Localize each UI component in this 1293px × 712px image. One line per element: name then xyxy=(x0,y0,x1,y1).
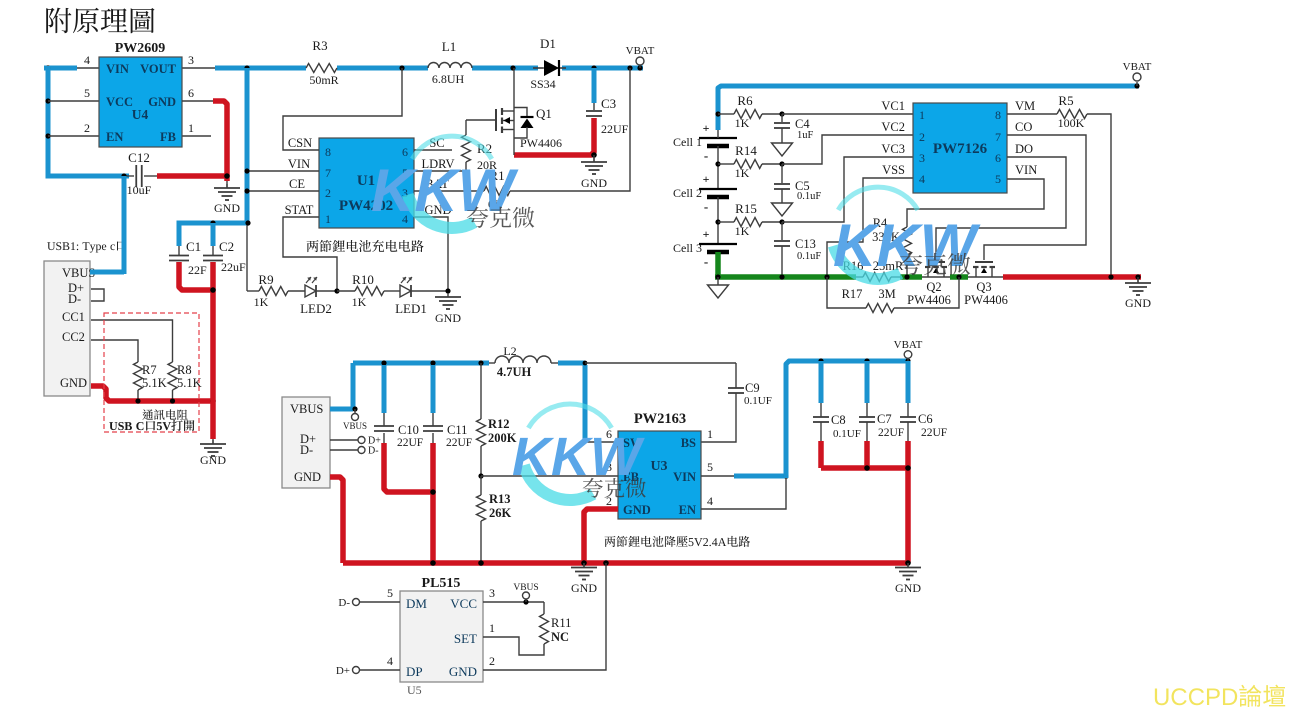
capacitor C12 xyxy=(124,175,134,177)
capacitor C7 22UF xyxy=(865,361,870,403)
svg-text:U4: U4 xyxy=(132,107,149,122)
svg-text:C4: C4 xyxy=(795,117,810,131)
svg-text:L1: L1 xyxy=(442,39,456,54)
resistor R11 NC xyxy=(543,602,545,614)
wire GND2 to rail (red) xyxy=(330,477,343,563)
svg-text:-: - xyxy=(704,199,708,214)
svg-text:5: 5 xyxy=(707,460,713,474)
svg-text:6: 6 xyxy=(188,86,194,100)
wire VBAT2 rail (blue) xyxy=(718,86,1139,130)
wire C3 blue stub xyxy=(592,68,597,103)
diode D1 SS34 xyxy=(533,67,544,69)
svg-text:KKW: KKW xyxy=(512,427,645,487)
svg-text:CC2: CC2 xyxy=(62,330,85,344)
svg-text:VCC: VCC xyxy=(106,95,133,109)
svg-text:PW4406: PW4406 xyxy=(520,136,562,150)
svg-text:R12: R12 xyxy=(488,417,510,431)
capacitor C1 22F xyxy=(177,223,182,246)
node green left xyxy=(715,274,720,279)
node C1/C2 red xyxy=(210,287,216,293)
svg-text:-: - xyxy=(704,148,708,163)
svg-text:Q3: Q3 xyxy=(976,280,991,294)
wire VC1 xyxy=(782,113,913,115)
svg-text:D-: D- xyxy=(368,446,379,457)
svg-text:+: + xyxy=(703,172,710,186)
ground GND LED row xyxy=(447,293,449,297)
svg-text:D-: D- xyxy=(68,292,81,306)
resistor R3 xyxy=(306,64,337,73)
svg-text:D-: D- xyxy=(338,597,350,609)
svg-text:VBUS: VBUS xyxy=(343,421,367,431)
svg-text:7: 7 xyxy=(995,130,1001,144)
svg-text:1uF: 1uF xyxy=(797,130,814,141)
resistor R1 0R xyxy=(414,190,484,192)
svg-text:C6: C6 xyxy=(918,412,933,426)
watermark UCCPD论坛 xyxy=(1155,685,1285,707)
svg-text:DP: DP xyxy=(406,664,423,679)
node R4 foot xyxy=(904,274,909,279)
capacitor C3 xyxy=(593,103,595,110)
terminal VBAT3 xyxy=(907,358,909,361)
svg-text:VBUS: VBUS xyxy=(513,583,538,593)
terminal VBUS3 xyxy=(523,599,528,604)
terminal VBAT xyxy=(637,65,642,70)
svg-text:CO: CO xyxy=(1015,120,1032,134)
wire green rail 2 xyxy=(900,274,922,280)
transistor Q2 PW4406 xyxy=(927,261,945,263)
capacitor C4 1uF xyxy=(781,114,783,122)
svg-text:26K: 26K xyxy=(489,506,512,520)
resistor R5 100K xyxy=(1007,113,1057,115)
svg-text:PL515: PL515 xyxy=(422,576,461,591)
svg-text:C7: C7 xyxy=(877,412,892,426)
capacitor C6 22UF xyxy=(906,361,911,403)
wire STAT route xyxy=(283,217,337,291)
svg-text:50mR: 50mR xyxy=(309,73,338,87)
svg-text:NC: NC xyxy=(551,630,569,644)
svg-text:Cell 3: Cell 3 xyxy=(673,241,702,255)
ground GND right rail xyxy=(1137,277,1139,283)
svg-text:R15: R15 xyxy=(735,201,757,216)
svg-text:GND: GND xyxy=(294,470,321,484)
svg-text:C9: C9 xyxy=(745,381,760,395)
svg-text:R10: R10 xyxy=(352,272,374,287)
svg-text:+: + xyxy=(703,121,710,135)
wire U4 VCC pin xyxy=(48,100,99,102)
node cell3 top xyxy=(715,219,720,224)
watermark KKW 1 xyxy=(371,136,519,228)
node C12 xyxy=(121,173,126,178)
wire BS top run xyxy=(585,362,736,364)
node rail right xyxy=(905,560,911,566)
svg-text:DO: DO xyxy=(1015,142,1033,156)
terminal VBAT right xyxy=(1134,83,1139,88)
svg-text:PW2163: PW2163 xyxy=(634,411,686,427)
svg-text:+: + xyxy=(703,227,710,241)
svg-text:22UF: 22UF xyxy=(921,427,947,439)
svg-text:8: 8 xyxy=(995,108,1001,122)
svg-text:4: 4 xyxy=(387,654,393,668)
transistor Q3 PW4406 xyxy=(975,261,993,263)
capacitor C8 0.1UF xyxy=(819,361,824,403)
wire VC3 route xyxy=(782,157,913,222)
node PL515 gnd rail xyxy=(603,560,609,566)
battery Cell 3 xyxy=(699,243,737,245)
svg-text:KKW: KKW xyxy=(371,157,519,224)
svg-text:CE: CE xyxy=(289,177,305,191)
node C7 top xyxy=(864,358,869,363)
svg-text:R3: R3 xyxy=(312,38,327,53)
wire green rail 1 xyxy=(715,274,856,280)
svg-text:VM: VM xyxy=(1015,99,1035,113)
caption 两节锂电池降压5V2.4A电路 xyxy=(605,536,750,547)
svg-text:VC3: VC3 xyxy=(881,142,905,156)
ground GND mid rail xyxy=(583,563,585,567)
svg-text:2: 2 xyxy=(325,186,331,200)
svg-text:PW4406: PW4406 xyxy=(907,293,951,307)
wire VC2 route xyxy=(782,135,913,164)
svg-text:VBAT: VBAT xyxy=(1123,61,1152,73)
svg-text:R9: R9 xyxy=(258,272,273,287)
caption 通讯电阻 xyxy=(142,409,187,420)
ground GND right rail2 xyxy=(907,563,909,567)
svg-text:4.7UH: 4.7UH xyxy=(497,365,532,379)
IC U1 PW4202 xyxy=(319,138,414,228)
dashed box 通讯电阻 xyxy=(104,313,199,432)
svg-text:VC2: VC2 xyxy=(881,120,905,134)
node R7 foot xyxy=(135,398,140,403)
svg-text:D+: D+ xyxy=(336,665,350,677)
node VCC tap xyxy=(45,98,50,103)
terminal D-2 xyxy=(330,449,358,451)
node cell2 top xyxy=(715,161,720,166)
svg-text:LED1: LED1 xyxy=(395,301,427,316)
svg-text:GND: GND xyxy=(895,581,921,595)
capacitor C9 0.1UF xyxy=(735,363,737,388)
node red junction xyxy=(224,173,230,179)
svg-text:GND: GND xyxy=(449,664,477,679)
svg-text:22UF: 22UF xyxy=(878,427,904,439)
wire VIN tap xyxy=(247,170,319,172)
LED2 xyxy=(305,285,316,297)
node C6 foot xyxy=(905,465,911,471)
svg-text:PW2609: PW2609 xyxy=(115,41,166,56)
node C10 top xyxy=(381,360,386,365)
wire VIN riser (blue) xyxy=(786,361,908,478)
svg-text:GND: GND xyxy=(214,201,240,215)
wire GND to rail (red) xyxy=(91,386,213,401)
wire SW stub xyxy=(585,441,618,443)
svg-text:C10: C10 xyxy=(398,423,419,437)
svg-text:C3: C3 xyxy=(601,96,616,111)
wire VBUS top rail (blue) xyxy=(44,66,77,71)
ground GND under C2 xyxy=(212,439,214,444)
wire SC stub xyxy=(414,149,452,151)
node VIN/EN xyxy=(783,473,788,478)
ground tri below C4 xyxy=(772,143,793,156)
wire CC1 to R8 xyxy=(91,320,173,362)
svg-text:2: 2 xyxy=(489,654,495,668)
node LED2/STAT xyxy=(334,288,339,293)
node U3 gnd rail xyxy=(581,560,587,566)
inductor L2 xyxy=(489,362,495,364)
svg-text:VIN: VIN xyxy=(673,470,696,484)
caption USB C口5V打开 xyxy=(109,420,194,431)
svg-text:10uF: 10uF xyxy=(127,183,152,197)
wire U1 GND down xyxy=(414,217,448,291)
resistor R10 1K xyxy=(337,290,355,292)
svg-text:EN: EN xyxy=(679,503,696,517)
svg-text:1K: 1K xyxy=(352,295,367,309)
svg-text:1K: 1K xyxy=(735,224,750,238)
svg-text:C8: C8 xyxy=(831,413,846,427)
svg-text:EN: EN xyxy=(106,130,123,144)
svg-text:5.1K: 5.1K xyxy=(142,376,167,390)
node R1 riser xyxy=(627,65,632,70)
node R12 top xyxy=(478,360,483,365)
node C7 foot xyxy=(864,465,870,471)
svg-text:3M: 3M xyxy=(878,287,895,301)
svg-text:6.8UH: 6.8UH xyxy=(432,72,465,86)
LED1 xyxy=(400,285,411,297)
wire top rail pin stubs xyxy=(77,67,99,69)
svg-text:PW7126: PW7126 xyxy=(933,141,988,157)
svg-text:DM: DM xyxy=(406,596,427,611)
svg-text:C13: C13 xyxy=(795,237,816,251)
svg-text:1K: 1K xyxy=(735,116,750,130)
node EN tap xyxy=(45,133,50,138)
wire U4 GND to ground (red) xyxy=(182,100,215,102)
wire C2 to GND (red) xyxy=(210,262,216,439)
node C11 top xyxy=(430,360,435,365)
svg-text:VC1: VC1 xyxy=(881,99,905,113)
node C13 foot xyxy=(779,274,784,279)
svg-text:7: 7 xyxy=(325,166,331,180)
svg-text:BS: BS xyxy=(681,436,696,450)
wire VCC xyxy=(483,601,544,603)
svg-text:VBUS: VBUS xyxy=(290,402,323,416)
resistor R16 25mR xyxy=(856,276,863,278)
wire VIN7126 route xyxy=(907,179,1044,227)
svg-text:22F: 22F xyxy=(188,263,207,277)
svg-text:U5: U5 xyxy=(407,683,422,697)
svg-text:LED2: LED2 xyxy=(300,301,332,316)
wire VBUS to riser (blue) xyxy=(90,270,124,275)
node C6 top xyxy=(905,358,910,363)
svg-text:22UF: 22UF xyxy=(601,122,629,136)
svg-text:22UF: 22UF xyxy=(397,437,423,449)
wire cell3 minus (green) xyxy=(715,252,721,277)
wire CSN route xyxy=(283,68,402,150)
svg-text:D-: D- xyxy=(300,443,313,457)
node CSN riser xyxy=(399,65,404,70)
svg-text:GND: GND xyxy=(1125,296,1151,310)
svg-text:GND: GND xyxy=(200,453,226,467)
wire L2 to SW (blue) xyxy=(558,361,585,366)
svg-text:100K: 100K xyxy=(1058,116,1085,130)
inductor L1 xyxy=(428,63,472,68)
wire red C-rail xyxy=(821,465,908,471)
svg-text:C2: C2 xyxy=(219,239,234,254)
wire red rail right xyxy=(1003,274,1141,280)
svg-text:1: 1 xyxy=(919,108,925,122)
svg-text:5.1K: 5.1K xyxy=(177,376,202,390)
terminal VBUS2 xyxy=(352,406,357,411)
svg-text:1K: 1K xyxy=(735,166,750,180)
svg-text:GND: GND xyxy=(148,95,176,109)
wire U4 EN pin xyxy=(48,135,99,137)
resistor R8 5.1K xyxy=(168,362,177,390)
node C2 top xyxy=(210,220,215,225)
resistor R17 3M xyxy=(827,277,866,308)
IC U5 PL515 body xyxy=(400,591,483,682)
svg-text:C12: C12 xyxy=(128,150,150,165)
svg-text:CSN: CSN xyxy=(288,136,312,150)
D+/D- bracket xyxy=(91,289,104,301)
caption 两节锂电池充电电路 xyxy=(307,240,424,252)
resistor R15 1K xyxy=(718,221,734,223)
resistor R2 20R xyxy=(465,120,467,135)
wire green rail 3 xyxy=(950,274,968,280)
resistor R12 200K xyxy=(480,363,482,419)
svg-text:VBAT: VBAT xyxy=(626,45,655,57)
svg-text:VCC: VCC xyxy=(450,596,477,611)
wire VIN riser (blue) xyxy=(245,68,250,223)
svg-text:Q2: Q2 xyxy=(926,280,941,294)
svg-text:0.1UF: 0.1UF xyxy=(744,395,772,407)
node C8 top xyxy=(818,358,823,363)
wire under Q3 xyxy=(968,276,1005,278)
connector USB2 body xyxy=(282,397,330,488)
node LED1/GND xyxy=(445,288,450,293)
svg-text:5: 5 xyxy=(387,586,393,600)
svg-text:Cell 2: Cell 2 xyxy=(673,186,702,200)
wire CE tap xyxy=(247,190,319,192)
svg-text:SET: SET xyxy=(454,631,477,646)
wire FB xyxy=(481,475,618,477)
svg-text:GND: GND xyxy=(581,176,607,190)
resistor R9 1K xyxy=(259,287,288,296)
ground tri below cell3 xyxy=(717,277,719,285)
svg-text:R6: R6 xyxy=(737,93,753,108)
IC U3 PW2163 xyxy=(618,431,701,519)
watermark KKW 3 xyxy=(833,187,981,279)
capacitor C5 0.1uF xyxy=(781,164,783,183)
resistor R13 26K xyxy=(480,476,482,495)
svg-text:-: - xyxy=(704,254,708,269)
svg-text:2: 2 xyxy=(919,130,925,144)
svg-text:4: 4 xyxy=(84,53,90,67)
svg-text:U3: U3 xyxy=(650,459,667,474)
svg-text:R11: R11 xyxy=(551,616,571,630)
wire under Q2 xyxy=(922,276,950,278)
svg-text:4: 4 xyxy=(919,172,925,186)
svg-text:PW4406: PW4406 xyxy=(964,293,1008,307)
wire blue L2 header xyxy=(353,361,489,366)
svg-text:R8: R8 xyxy=(177,363,192,377)
wire C3 to Q1 source (red) xyxy=(514,118,594,155)
node rail/C2 xyxy=(210,398,216,404)
wire U3 GND (red) xyxy=(584,509,618,563)
svg-text:VBAT: VBAT xyxy=(894,339,923,351)
battery Cell 1 xyxy=(699,137,737,139)
svg-text:GND: GND xyxy=(623,503,651,517)
capacitor C13 0.1uF xyxy=(781,222,783,240)
svg-text:CC1: CC1 xyxy=(62,310,85,324)
wire CO route xyxy=(984,135,1086,260)
svg-text:Q1: Q1 xyxy=(536,106,552,121)
node SW/BS tap xyxy=(583,361,588,366)
svg-text:3: 3 xyxy=(489,586,495,600)
svg-text:1: 1 xyxy=(489,621,495,635)
svg-text:VOUT: VOUT xyxy=(140,62,177,76)
svg-text:VIN: VIN xyxy=(288,157,310,171)
svg-text:8: 8 xyxy=(325,145,331,159)
IC PW7126 xyxy=(913,103,1007,193)
node GND right xyxy=(1135,274,1140,279)
node R5 foot xyxy=(1108,274,1113,279)
svg-text:6: 6 xyxy=(995,151,1001,165)
wire GND U5 xyxy=(483,563,606,670)
node VSS foot xyxy=(824,274,829,279)
node C3 tap xyxy=(591,65,596,70)
svg-text:1: 1 xyxy=(707,427,713,441)
svg-text:VSS: VSS xyxy=(882,163,905,177)
svg-text:R14: R14 xyxy=(735,143,757,158)
node C5 tap xyxy=(779,161,784,166)
svg-text:VIN: VIN xyxy=(1015,163,1037,177)
connector USB1 body xyxy=(44,261,90,396)
svg-text:FB: FB xyxy=(160,130,176,144)
svg-text:C11: C11 xyxy=(447,423,467,437)
resistor R4 330K xyxy=(903,227,912,255)
wire VSS route xyxy=(827,178,913,277)
terminal D+2 xyxy=(330,439,358,441)
wire red bottom rail xyxy=(343,560,908,566)
svg-text:KKW: KKW xyxy=(833,212,981,279)
svg-text:R5: R5 xyxy=(1058,93,1073,108)
capacitor C10 22UF xyxy=(382,365,387,413)
wire DO route xyxy=(936,157,1066,260)
node blue riser bottom xyxy=(245,220,250,225)
watermark KKW 2 xyxy=(512,404,645,500)
node top-left xyxy=(45,65,50,70)
wire CC2 to R7 xyxy=(91,340,138,362)
svg-text:0.1UF: 0.1UF xyxy=(833,428,861,440)
svg-text:1: 1 xyxy=(325,212,331,226)
svg-text:R13: R13 xyxy=(489,492,511,506)
node rail mid xyxy=(430,560,436,566)
svg-text:Cell 1: Cell 1 xyxy=(673,135,702,149)
wire left bus vertical xyxy=(47,68,49,176)
svg-text:R17: R17 xyxy=(842,287,863,301)
svg-text:GND: GND xyxy=(571,581,597,595)
svg-text:22UF: 22UF xyxy=(446,437,472,449)
svg-text:3: 3 xyxy=(188,53,194,67)
node VOUT riser xyxy=(244,65,249,70)
wire R9 riser xyxy=(246,223,248,291)
svg-text:2: 2 xyxy=(84,121,90,135)
svg-text:VIN: VIN xyxy=(106,62,129,76)
node R8 foot xyxy=(170,398,175,403)
wire U4 FB pin xyxy=(182,135,211,137)
svg-text:GND: GND xyxy=(435,311,461,325)
node FB xyxy=(478,473,483,478)
node C4 tap xyxy=(779,111,784,116)
svg-text:GND: GND xyxy=(60,376,87,390)
title 附原理图 xyxy=(46,8,154,34)
svg-text:0.1uF: 0.1uF xyxy=(797,191,821,202)
